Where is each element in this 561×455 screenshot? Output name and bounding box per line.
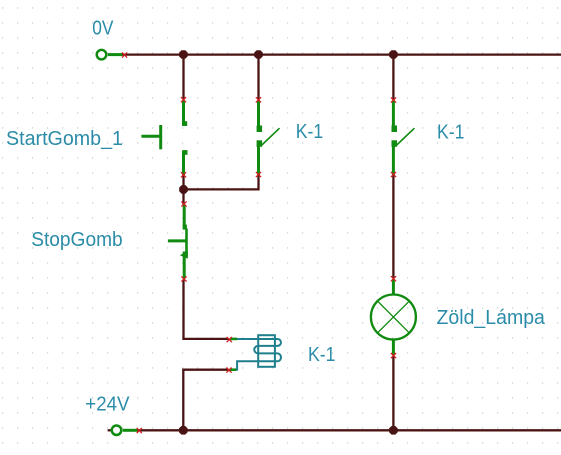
svg-text:Zöld_Lámpa: Zöld_Lámpa xyxy=(437,307,546,329)
svg-text:StopGomb: StopGomb xyxy=(31,229,123,251)
svg-text:+24V: +24V xyxy=(85,394,130,416)
svg-text:K-1: K-1 xyxy=(296,121,323,143)
svg-text:0V: 0V xyxy=(92,17,114,39)
svg-text:K-1: K-1 xyxy=(308,344,335,366)
svg-text:K-1: K-1 xyxy=(437,122,464,144)
svg-text:StartGomb_1: StartGomb_1 xyxy=(6,128,123,150)
